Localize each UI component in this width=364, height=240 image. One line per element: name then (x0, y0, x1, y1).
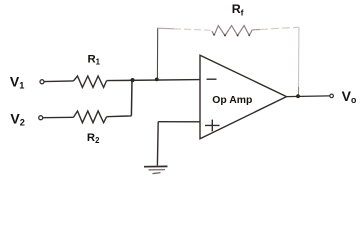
node output junction dot (296, 94, 300, 98)
svg-text:Op Amp: Op Amp (212, 95, 252, 106)
resistor R1 zigzag (74, 76, 107, 87)
svg-text:Rf: Rf (232, 2, 244, 18)
resistor Rf zigzag (212, 26, 252, 36)
wire: R1 to op-amp inverting input (107, 80, 200, 81)
op-amp minus sign (207, 78, 217, 80)
svg-text:Vo: Vo (342, 88, 357, 105)
wire: feedback left vertical (node A up to Rf) (156, 28, 158, 80)
wire: feedback top-left segment (157, 27, 174, 30)
node junction dot 2 (feedback branch) (155, 78, 159, 82)
node Rf zigzag valley dots (213, 34, 215, 36)
ground symbol (144, 165, 168, 167)
terminal circle V2 (39, 116, 43, 120)
wire: feedback top-right segment (252, 29, 260, 31)
wire: non-inverting input to ground corner (158, 121, 200, 123)
wire: vertical from junction 1 down to R2 (130, 80, 133, 116)
wire: R2 to junction 1 vertical corner (107, 115, 132, 118)
svg-text:R1: R1 (88, 53, 101, 66)
op-amp U1 triangle (200, 55, 287, 139)
svg-text:V1: V1 (10, 73, 24, 90)
node junction dot 1 (V2 branch) (130, 78, 134, 82)
wire: feedback right vertical down to output node (298, 27, 300, 95)
svg-text:R2: R2 (87, 132, 100, 145)
terminal circle V1 (40, 80, 44, 84)
terminal circle Vo (330, 94, 334, 98)
wire: ground vertical (156, 122, 159, 166)
svg-text:V2: V2 (10, 110, 24, 127)
wire: op-amp output (287, 95, 330, 98)
wire: V1 to R1 (44, 80, 73, 83)
op-amp plus sign (205, 120, 220, 132)
wire: V2 to R2 (43, 116, 74, 118)
resistor R2 zigzag (74, 111, 107, 123)
